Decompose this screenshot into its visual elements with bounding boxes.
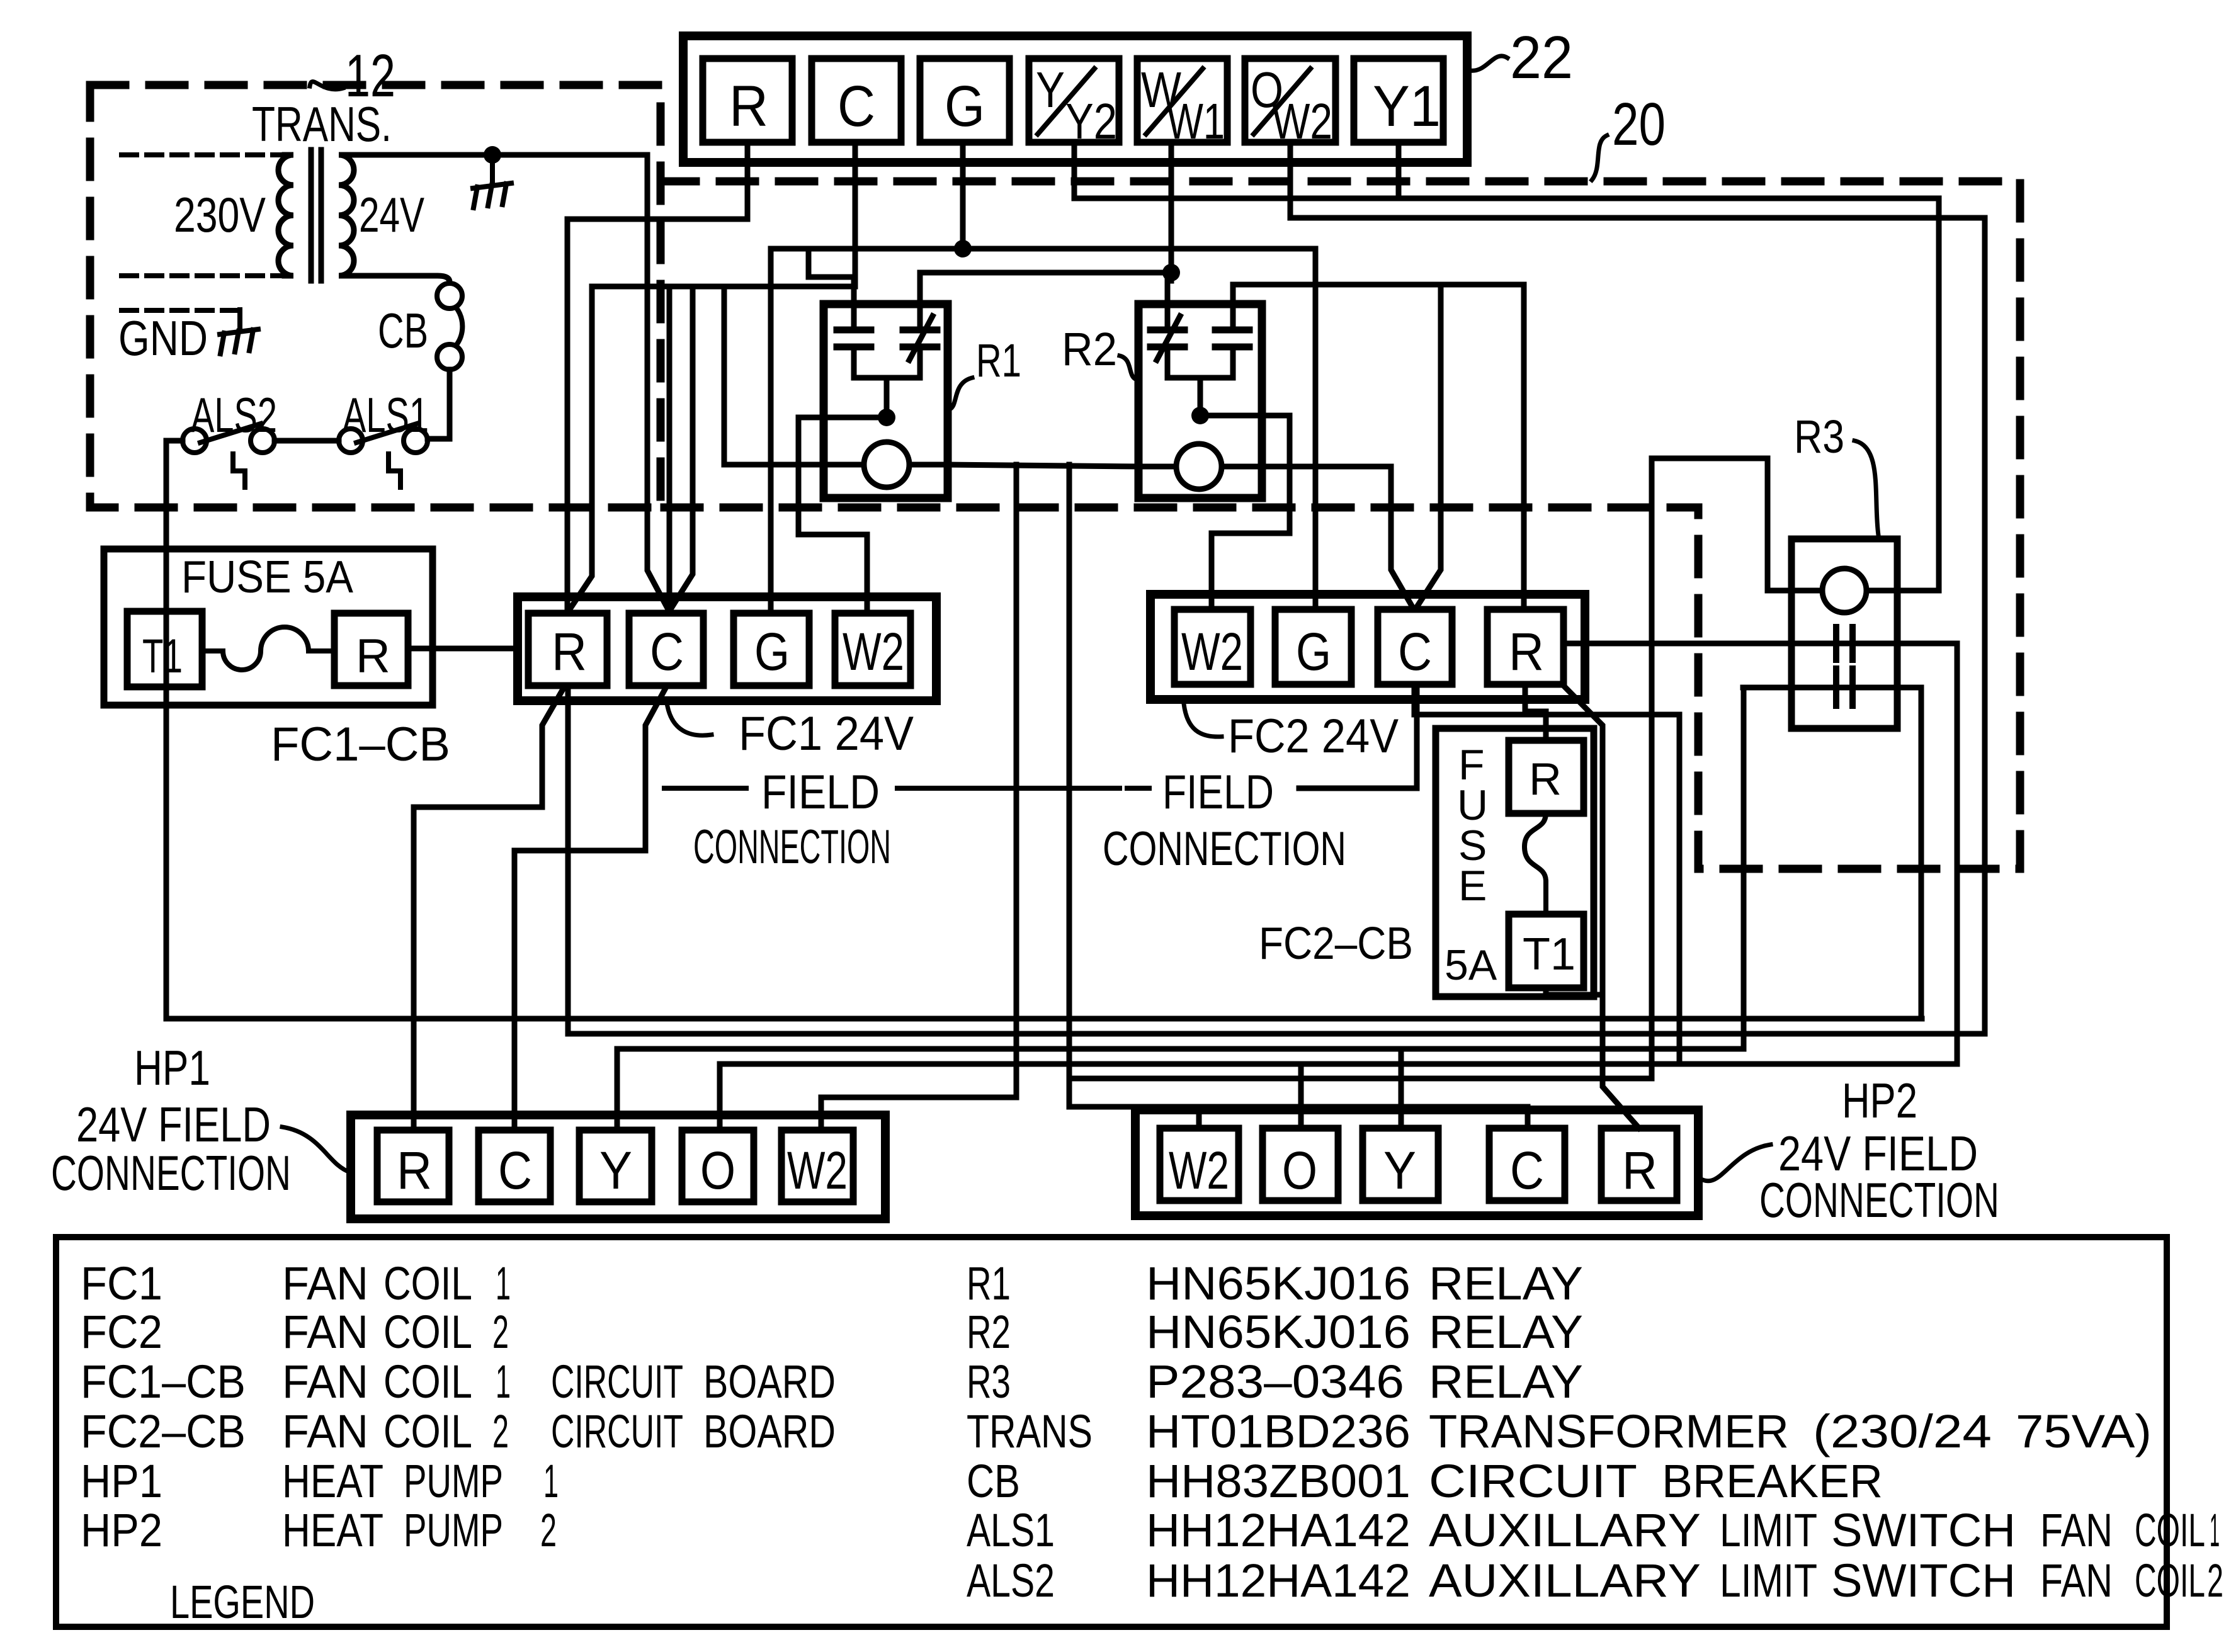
svg-text:FC1–CB: FC1–CB	[81, 1355, 246, 1408]
svg-text:TRANS: TRANS	[967, 1405, 1093, 1457]
svg-text:LIMIT: LIMIT	[1720, 1554, 1817, 1607]
terminal R of HP1	[377, 1130, 449, 1202]
svg-text:CONNECTION: CONNECTION	[693, 820, 891, 874]
terminal Y of HP1	[579, 1130, 652, 1202]
wire: R2 right contact bus	[1233, 282, 1524, 288]
svg-text:FC1 24V: FC1 24V	[739, 707, 914, 761]
wire: FC1-C bottom to HP1-C	[514, 688, 666, 1130]
label ALS1	[343, 387, 429, 443]
wire: R3 lower contact left drop to Y trunk	[1741, 687, 1747, 1049]
wire: R3 upper contact feed from FC2-R	[1564, 641, 1957, 647]
switch ALS1	[339, 424, 428, 487]
wire: FC2 R terminal to FC2-CB R	[1525, 684, 1546, 740]
transformer TRANS primary dashed leads	[122, 155, 285, 276]
wire: FC2-CB T1 down to common trunk	[1546, 988, 1603, 995]
fuse board FC1-CB outer box	[104, 549, 433, 705]
fuse element FC1-CB	[204, 627, 334, 670]
relay R1 contact bus and stem	[854, 378, 920, 417]
fuse board FC2-CB outer box	[1436, 728, 1594, 997]
terminal C of FC2	[1378, 609, 1452, 684]
svg-text:ALS2: ALS2	[191, 387, 277, 443]
terminal Y of HP2	[1363, 1128, 1438, 1201]
leader for label 12	[310, 82, 343, 89]
wire: FC1-CB R to FC1 strip	[408, 646, 518, 652]
svg-text:COIL: COIL	[2135, 1554, 2205, 1607]
svg-text:HH12HA142: HH12HA142	[1146, 1554, 1411, 1607]
wire: drop to FC2-R	[1521, 285, 1527, 609]
svg-text:R3: R3	[967, 1355, 1011, 1408]
label CONNECTION (FC1)	[693, 820, 891, 874]
svg-text:2: 2	[492, 1405, 509, 1457]
wire: Y trunk	[617, 1046, 1744, 1052]
svg-text:C: C	[1398, 622, 1432, 681]
dashed enclosure box 12 (transformer section)	[90, 85, 661, 507]
terminal R of block 22	[703, 59, 792, 142]
wire: R3 coil left lead up and over	[1652, 458, 1791, 591]
wire: R bus drop to FC1-R (right leg)	[571, 286, 592, 608]
label CB	[378, 303, 428, 358]
svg-text:FAN: FAN	[2040, 1504, 2113, 1556]
wire: R bus horizontal to left trunk	[567, 217, 747, 222]
svg-text:2: 2	[492, 1306, 509, 1358]
svg-text:C: C	[650, 622, 684, 681]
terminal W2 of HP1	[781, 1130, 853, 1202]
svg-text:G: G	[754, 622, 790, 681]
svg-text:COIL: COIL	[383, 1257, 472, 1310]
svg-text:CIRCUIT: CIRCUIT	[1429, 1455, 1637, 1507]
svg-text:HP2: HP2	[1842, 1073, 1917, 1128]
label FUSE (vertical) and 5A	[1445, 741, 1497, 989]
svg-text:COIL: COIL	[383, 1355, 472, 1408]
svg-text:CIRCUIT: CIRCUIT	[551, 1355, 683, 1408]
leader for HP2 label	[1700, 1145, 1771, 1181]
label 24V FIELD (HP1)	[76, 1097, 271, 1152]
node: junction dot on secondary top wire	[484, 146, 501, 164]
terminal C of block 22	[812, 59, 901, 142]
svg-text:HT01BD236: HT01BD236	[1146, 1405, 1411, 1457]
label FIELD (FC1) with leader dashes	[761, 766, 880, 819]
terminal R of FC2	[1487, 609, 1564, 684]
svg-text:SWITCH: SWITCH	[1831, 1504, 2016, 1556]
wire: Y bus to R3 coil	[1074, 196, 1939, 201]
svg-text:R3: R3	[1794, 410, 1844, 463]
label ALS2	[191, 387, 277, 443]
svg-text:R: R	[1509, 622, 1544, 681]
wire: G bus drop to FC1-G	[768, 249, 774, 609]
svg-text:Y: Y	[1383, 1141, 1416, 1200]
label 22	[1510, 24, 1573, 91]
label FC1-CB	[271, 718, 450, 771]
wire: 22-R stub down	[745, 142, 751, 219]
relay R3 coil	[1822, 569, 1866, 613]
relay R1 coil	[864, 442, 909, 487]
svg-text:LEGEND: LEGEND	[170, 1576, 315, 1628]
wire: R1 junction horizontal	[798, 415, 882, 421]
terminal W2 of FC1	[835, 613, 911, 686]
node: R2 junction dot	[1191, 407, 1209, 424]
wire: R2 junction to FC2-W2	[1200, 416, 1290, 609]
svg-text:P283–0346: P283–0346	[1146, 1355, 1404, 1408]
relay R2 contact bus and stem	[1167, 378, 1233, 416]
svg-text:GND: GND	[118, 310, 208, 366]
svg-text:R: R	[397, 1141, 432, 1200]
svg-text:R: R	[356, 630, 390, 683]
svg-text:R: R	[552, 622, 587, 681]
svg-text:PUMP: PUMP	[404, 1455, 503, 1507]
svg-text:FAN: FAN	[282, 1306, 368, 1358]
wire: 22-Y/Y2 stub down	[1072, 142, 1077, 198]
label HP2	[1842, 1073, 1917, 1128]
svg-text:R2: R2	[1062, 323, 1117, 375]
wire: common trunk (C)	[166, 1016, 1922, 1022]
relay R2 left contact with slash (NC)	[1150, 281, 1184, 378]
relay R2 box	[1138, 304, 1262, 498]
svg-text:G: G	[1296, 622, 1331, 681]
svg-text:1: 1	[543, 1455, 559, 1507]
wire: R bus drop to FC1-R (left leg)	[565, 219, 571, 608]
svg-text:RELAY: RELAY	[1429, 1257, 1583, 1310]
svg-text:E: E	[1458, 862, 1487, 910]
wire: secondary bottom to circuit breaker CB	[348, 276, 450, 282]
svg-text:HP2: HP2	[81, 1504, 162, 1556]
svg-text:C: C	[1510, 1141, 1544, 1200]
terminal G of FC1	[734, 613, 809, 686]
svg-text:FC2: FC2	[81, 1306, 162, 1358]
svg-text:O: O	[700, 1141, 735, 1200]
svg-text:5A: 5A	[1445, 941, 1497, 989]
terminal T1 of FC2-CB	[1509, 914, 1584, 988]
svg-text:W2: W2	[843, 622, 904, 681]
svg-text:TRANSFORMER: TRANSFORMER	[1429, 1405, 1789, 1457]
svg-text:FC1: FC1	[81, 1257, 162, 1310]
heat pump 2 terminal strip HP2 outer box	[1135, 1110, 1698, 1216]
svg-text:BREAKER: BREAKER	[1662, 1455, 1883, 1507]
svg-text:AUXILLARY: AUXILLARY	[1429, 1504, 1701, 1556]
svg-text:24V: 24V	[359, 187, 424, 242]
wire: C bus left end down to R1 coil	[724, 286, 824, 465]
wire: FIELD leader to FC2 C terminal	[1299, 686, 1417, 788]
wire: secondary top to common bus	[348, 152, 647, 158]
wire: 22-G stub down to junction	[960, 142, 966, 249]
svg-text:(230/24: (230/24	[1813, 1405, 1992, 1457]
leader for FC2 24V	[1184, 704, 1222, 737]
svg-text:75VA): 75VA)	[2016, 1405, 2152, 1457]
svg-text:PUMP: PUMP	[404, 1504, 503, 1556]
switch ALS2	[183, 424, 275, 487]
svg-text:FAN: FAN	[2040, 1554, 2113, 1607]
ground symbol GND	[220, 310, 258, 354]
svg-text:20: 20	[1612, 91, 1666, 158]
label 230V	[174, 187, 266, 242]
relay R1 left contact (capacitor style)	[837, 304, 871, 378]
svg-text:G: G	[945, 74, 985, 139]
terminal W2 of FC2	[1174, 609, 1251, 684]
svg-text:CONNECTION: CONNECTION	[1103, 822, 1346, 876]
svg-text:230V: 230V	[174, 187, 266, 242]
wire: G bus horizontal	[771, 246, 1315, 252]
svg-text:CB: CB	[378, 303, 428, 358]
svg-text:R: R	[1622, 1141, 1657, 1200]
svg-text:RELAY: RELAY	[1429, 1306, 1583, 1358]
svg-text:C: C	[498, 1141, 532, 1200]
svg-text:W2: W2	[1272, 93, 1332, 149]
leader for R1	[950, 378, 972, 409]
leader for HP1 label	[282, 1127, 350, 1172]
wire: R3 coil leads	[1791, 588, 1939, 594]
svg-text:COIL: COIL	[383, 1306, 472, 1358]
thermostat terminal block 22 outer box	[683, 36, 1467, 162]
label CONNECTION (HP1)	[51, 1145, 291, 1201]
wire: 22-W/W1 stub down to R2 contact	[1169, 142, 1174, 281]
svg-text:ALS2: ALS2	[967, 1554, 1055, 1607]
fuse element FC2-CB	[1524, 813, 1546, 914]
svg-text:T1: T1	[1523, 929, 1575, 980]
wire: right drop from R3 upper contact wire	[1955, 643, 1960, 1064]
svg-text:R2: R2	[967, 1306, 1011, 1358]
label FUSE 5A	[181, 552, 353, 603]
svg-text:FAN: FAN	[282, 1355, 368, 1408]
svg-text:FAN: FAN	[282, 1257, 368, 1310]
svg-text:Y: Y	[599, 1141, 632, 1200]
terminal Y1 of block 22	[1354, 59, 1443, 142]
svg-text:HP1: HP1	[134, 1040, 210, 1095]
relay R1 right contact with slash (NC)	[903, 273, 937, 378]
svg-text:CONNECTION: CONNECTION	[51, 1145, 291, 1201]
wire: drop to HP1-O	[717, 1064, 723, 1130]
label FC1 24V	[739, 707, 914, 761]
label 24V	[359, 187, 424, 242]
terminal O/W2 of block 22	[1245, 59, 1336, 142]
label FC2-CB	[1259, 919, 1413, 969]
relay R3 lower contact	[1836, 669, 1853, 706]
wire: R trunk	[568, 1031, 1985, 1037]
svg-text:W2: W2	[1181, 622, 1243, 681]
terminal R of FC1-CB	[334, 613, 408, 686]
ground symbol (top, at secondary common)	[473, 155, 511, 208]
wire: ALS2 to ALS1	[275, 438, 339, 444]
wire: right edge drop of O bus	[1982, 218, 1988, 1034]
svg-text:1: 1	[496, 1355, 511, 1408]
svg-text:CB: CB	[967, 1455, 1020, 1507]
svg-text:FAN: FAN	[282, 1405, 368, 1457]
svg-text:FC2–CB: FC2–CB	[1259, 919, 1413, 969]
svg-text:T1: T1	[142, 630, 183, 683]
label R3	[1794, 410, 1844, 463]
svg-text:22: 22	[1510, 24, 1573, 91]
svg-text:CONNECTION: CONNECTION	[1759, 1172, 1999, 1228]
label 24V FIELD (HP2)	[1778, 1126, 1978, 1181]
wire: O bus to right edge	[1290, 215, 1985, 221]
label CONNECTION (FC2)	[1103, 822, 1346, 876]
wire: FC1-R bottom straight down to common trunk	[565, 688, 571, 1034]
terminal R of HP2	[1601, 1128, 1677, 1201]
wire: lower O bus horizontal	[1069, 1076, 1652, 1082]
label 12	[345, 42, 395, 110]
node: R1 junction dot	[878, 409, 895, 426]
label GND	[118, 310, 208, 366]
terminal G of block 22	[920, 59, 1009, 142]
svg-text:BOARD: BOARD	[703, 1355, 836, 1408]
wire: CB to ALS1 right contact	[428, 370, 450, 439]
wire: drop to HP2-Y	[1399, 1049, 1404, 1128]
svg-text:COIL: COIL	[2135, 1504, 2205, 1556]
relay R2 right contact (capacitor style)	[1215, 285, 1249, 378]
terminal G of FC2	[1275, 609, 1351, 684]
label TRANS.	[252, 96, 392, 152]
wire: drop to HP2-O	[1298, 1064, 1304, 1128]
svg-text:W2: W2	[787, 1141, 848, 1200]
svg-text:1: 1	[496, 1257, 511, 1310]
svg-text:ALS1: ALS1	[343, 387, 429, 443]
label R2	[1062, 323, 1117, 375]
svg-text:R: R	[729, 74, 768, 139]
wire: drop to HP1-Y	[615, 1049, 620, 1130]
wire: drop from R3 coil lead to O trunk	[1649, 458, 1655, 1078]
wire: FC2-R diagonal to HP2-R	[1564, 686, 1639, 1128]
wire: R3 lower contact horizontal	[1743, 685, 1921, 691]
svg-text:W2: W2	[1169, 1141, 1229, 1200]
label CONNECTION (HP2)	[1759, 1172, 1999, 1228]
terminal C of FC1	[629, 613, 703, 686]
svg-text:SWITCH: SWITCH	[1831, 1554, 2016, 1607]
wire: R2 coil leads	[1138, 464, 1262, 470]
svg-text:Y: Y	[1036, 62, 1065, 118]
svg-text:FC2–CB: FC2–CB	[81, 1405, 246, 1457]
terminal W2 of HP2	[1160, 1128, 1239, 1201]
svg-text:HH83ZB001: HH83ZB001	[1146, 1455, 1411, 1507]
leader for label 22	[1470, 56, 1507, 71]
label FIELD (FC2) with leader dashes	[1162, 766, 1274, 819]
svg-text:2: 2	[2207, 1554, 2223, 1607]
wire: drop to FC2-C (right leg)	[1417, 285, 1441, 607]
wire: drop from coil line to HP1-W2	[821, 465, 1016, 1130]
svg-text:HP1: HP1	[81, 1455, 162, 1507]
label 20	[1612, 91, 1666, 158]
node: G junction dot	[954, 240, 972, 257]
dashed lead to GND symbol	[122, 308, 240, 313]
svg-text:Y1: Y1	[1373, 74, 1441, 139]
wire: FC1-R bottom diagonal to HP1-R	[414, 688, 564, 1130]
terminal C of HP2	[1489, 1128, 1565, 1201]
svg-text:C: C	[837, 74, 875, 139]
wire: R2 coil right to FC2-C (left leg)	[1262, 467, 1412, 607]
svg-text:CIRCUIT: CIRCUIT	[551, 1405, 683, 1457]
heat pump 1 terminal strip HP1 outer box	[351, 1115, 885, 1219]
wire: W bus to R1 right contact	[920, 270, 1171, 276]
wire: drop from coil line to HP2 common bus	[1069, 465, 1528, 1107]
svg-text:HN65KJ016: HN65KJ016	[1146, 1306, 1411, 1358]
wire: C bus drop to FC1-C (right leg)	[671, 286, 693, 608]
svg-text:LIMIT: LIMIT	[1720, 1504, 1817, 1556]
svg-text:W1: W1	[1167, 93, 1225, 149]
svg-text:1: 1	[2210, 1504, 2220, 1556]
relay R3 upper contact	[1836, 627, 1853, 660]
wire: C bus horizontal	[592, 284, 855, 290]
svg-text:FC1–CB: FC1–CB	[271, 718, 450, 771]
circuit breaker CB	[437, 283, 462, 370]
terminal T1 of FC1-CB	[127, 611, 202, 687]
transformer core	[311, 150, 321, 281]
wire: 22-O/W2 stub down	[1288, 142, 1293, 218]
label FC2 24V	[1228, 710, 1399, 763]
terminal R of FC1	[528, 613, 607, 686]
wire: Y bus down right side to R3 coil lead	[1936, 198, 1942, 591]
relay R3 box	[1791, 539, 1897, 728]
wire: G bus drop to FC2-G	[1313, 249, 1319, 609]
dashed enclosure boundary 20 (indoor unit)	[661, 181, 2020, 869]
wire: C bus drop to FC1-C (center leg)	[667, 286, 673, 608]
leader for label 20	[1592, 135, 1607, 180]
wire: R1 coil to R2 coil	[948, 465, 1138, 467]
wire: R3 lower contact right drop to O trunk	[1919, 687, 1924, 1019]
legend box	[56, 1237, 2167, 1627]
leader for R3	[1854, 441, 1878, 535]
fan coil 1 terminal strip FC1 24V outer box	[518, 597, 936, 701]
terminal Y/Y2 of block 22	[1029, 59, 1119, 142]
svg-text:HEAT: HEAT	[282, 1504, 383, 1556]
svg-text:RELAY: RELAY	[1429, 1355, 1583, 1408]
svg-text:R1: R1	[976, 334, 1021, 387]
svg-text:24V FIELD: 24V FIELD	[76, 1097, 271, 1152]
svg-text:FIELD: FIELD	[1162, 766, 1274, 819]
terminal C of HP1	[479, 1130, 550, 1202]
wire: transformer common down to FC1-C (left leg)	[647, 155, 667, 608]
wire: R1 coil leads	[824, 462, 948, 468]
svg-text:ALS1: ALS1	[967, 1504, 1055, 1556]
svg-text:AUXILLARY: AUXILLARY	[1429, 1554, 1701, 1607]
leader for FC1 24V	[667, 706, 712, 735]
node: W junction dot	[1162, 264, 1180, 281]
wire: O trunk	[720, 1061, 1957, 1067]
transformer primary winding 230V	[278, 155, 293, 276]
svg-text:HH12HA142: HH12HA142	[1146, 1504, 1411, 1556]
relay R1 box	[824, 304, 948, 498]
svg-text:COIL: COIL	[383, 1405, 472, 1457]
wire: 22-C stub down	[853, 142, 858, 286]
label HP1	[134, 1040, 210, 1095]
wire: Y1 stub to Y bus	[1396, 142, 1402, 198]
svg-text:HN65KJ016: HN65KJ016	[1146, 1257, 1411, 1310]
svg-text:FUSE 5A: FUSE 5A	[181, 552, 353, 603]
terminal R of FC2-CB	[1509, 740, 1584, 813]
wire: branch from G bus to R1 left contact	[809, 249, 854, 304]
wire: ALS2 left contact down through T1 to trunk	[166, 441, 183, 1019]
terminal O of HP2	[1263, 1128, 1338, 1201]
svg-text:R: R	[1529, 754, 1562, 805]
wire: R1 junction to FC1-W2	[798, 417, 867, 609]
svg-text:BOARD: BOARD	[703, 1405, 836, 1457]
terminal O of HP1	[682, 1130, 754, 1202]
wire: FC2-C bottom jog down to O trunk	[1414, 684, 1679, 1064]
svg-text:HEAT: HEAT	[282, 1455, 383, 1507]
relay R2 coil	[1176, 444, 1222, 489]
terminal W/W1 of block 22	[1137, 59, 1227, 142]
transformer secondary winding 24V	[339, 155, 354, 276]
leader for R2	[1120, 356, 1137, 380]
fan coil 2 terminal strip FC2 24V outer box	[1150, 594, 1585, 699]
svg-text:FIELD: FIELD	[761, 766, 880, 819]
svg-text:2: 2	[540, 1504, 557, 1556]
label R1	[976, 334, 1021, 387]
svg-text:TRANS.: TRANS.	[252, 96, 392, 152]
svg-text:FC2 24V: FC2 24V	[1228, 710, 1399, 763]
svg-text:O: O	[1282, 1141, 1317, 1200]
svg-text:R1: R1	[967, 1257, 1011, 1310]
